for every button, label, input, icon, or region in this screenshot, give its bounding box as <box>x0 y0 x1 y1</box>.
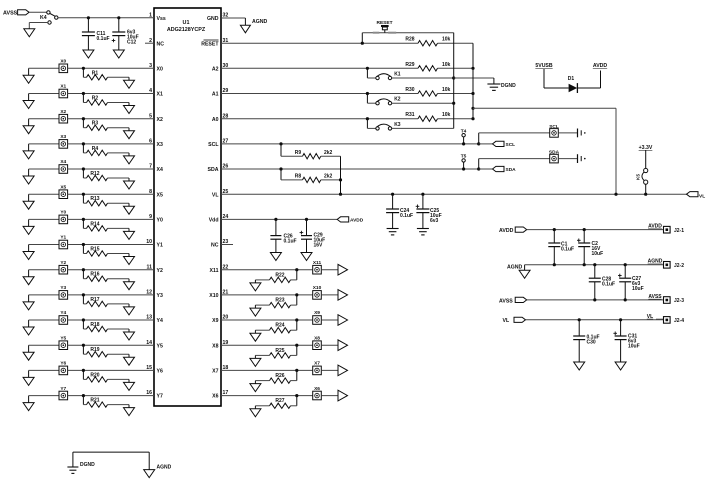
ground at R15 <box>124 257 135 265</box>
svg-text:DGND: DGND <box>501 83 516 89</box>
pushbutton RESET S1 <box>373 20 396 33</box>
svg-text:R27: R27 <box>275 398 284 404</box>
wire X3 to U1 <box>68 143 154 145</box>
ground at R18 <box>124 332 135 340</box>
svg-text:10uF: 10uF <box>628 344 640 350</box>
svg-text:10k: 10k <box>442 37 451 43</box>
connector SDA (SMB) <box>549 150 560 163</box>
svg-text:+3.3V: +3.3V <box>639 145 653 151</box>
wire Y7 to U1 <box>68 395 154 397</box>
svg-text:X11: X11 <box>210 268 219 274</box>
svg-text:R22: R22 <box>275 272 284 278</box>
junction A2 <box>366 67 369 70</box>
svg-text:AGND: AGND <box>157 465 172 471</box>
junction X5/R13 <box>82 193 85 196</box>
junction X9/R24 <box>295 318 298 321</box>
ground at X5 input <box>23 194 34 209</box>
svg-text:Y5: Y5 <box>157 343 163 349</box>
capacitor C25 10uF 6v3 (polarized) <box>416 194 442 228</box>
ground at X1 input <box>23 94 34 109</box>
wire Y0 to U1 <box>68 218 154 220</box>
resistor R30 10k <box>405 87 450 96</box>
svg-text:R25: R25 <box>275 348 284 354</box>
ground AGND at pin32 <box>240 19 267 33</box>
svg-text:5VUSB: 5VUSB <box>535 63 553 69</box>
wire Y2 to U1 <box>68 269 154 271</box>
resistor R13 <box>83 194 129 206</box>
wire pull-ups to VL row <box>339 156 342 194</box>
ground at X0 input <box>23 68 34 83</box>
wire VL row (supply block) <box>526 319 665 321</box>
net label +3.3V <box>639 145 653 151</box>
wire Y6 to U1 <box>68 369 154 371</box>
junction AVDD/C2 <box>583 228 586 231</box>
svg-text:SDA: SDA <box>208 167 219 173</box>
svg-text:R24: R24 <box>275 323 284 329</box>
wire R29 to pull-up rail <box>438 67 475 70</box>
wire Y1 to U1 <box>68 244 154 246</box>
junction X3/R4 <box>82 142 85 145</box>
svg-text:K1: K1 <box>394 71 401 77</box>
wire U1 to connector X6 <box>221 395 312 397</box>
wire Y4 to U1 <box>68 319 154 321</box>
svg-text:J2-4: J2-4 <box>674 318 684 324</box>
ground at Y1 input <box>23 245 34 260</box>
wire X4 to U1 <box>68 168 154 170</box>
svg-text:R31: R31 <box>405 112 414 118</box>
junction X6/R27 <box>295 394 298 397</box>
connector X4 (SMB) <box>59 159 68 173</box>
svg-text:Y7: Y7 <box>157 394 163 400</box>
wire R31 to pull-up rail <box>438 117 475 120</box>
svg-text:AVDD: AVDD <box>593 63 608 69</box>
jumper K1 <box>367 68 400 79</box>
ground (bar) at C25 <box>417 229 429 235</box>
wire U1 to connector X7 <box>221 369 312 371</box>
connector Y2 (SMB) <box>59 260 68 274</box>
junction AVSS/C27 <box>624 298 627 301</box>
wire up to pushbutton row <box>362 33 453 44</box>
junction Y3/R17 <box>82 293 85 296</box>
connector X5 (SMB) <box>59 184 68 198</box>
svg-text:Y1: Y1 <box>157 243 163 249</box>
svg-text:Vdd: Vdd <box>209 218 219 224</box>
capacitor C1 0.1uF <box>548 230 574 265</box>
wire VSS net: K4 common to U1 pin1 <box>58 17 154 19</box>
connector Y4 (SMB) <box>59 310 68 324</box>
connector Y1 (SMB) <box>59 235 68 249</box>
wire SDA net from U1 pin26 <box>221 168 479 170</box>
net label AVDD at J2-1 <box>648 224 662 230</box>
net flag AVSS (supply block) <box>499 297 527 304</box>
ground at R1 <box>124 80 135 88</box>
resistor R4 <box>83 144 129 156</box>
wire U1 to connector X10 <box>221 294 312 296</box>
junction X10/R23 <box>295 293 298 296</box>
connector X8 (SMB) <box>313 335 322 349</box>
junction X4/R12 <box>82 167 85 170</box>
terminal J2-2 <box>664 262 685 269</box>
connector X0 (SMB) <box>59 59 68 73</box>
wire VL net from U1 pin25 to VL flag <box>221 193 687 195</box>
connector X10 (SMB) <box>313 285 322 299</box>
jumper K3 <box>367 119 400 130</box>
ground at X4 input <box>23 169 34 184</box>
wire A2 net from U1 <box>221 67 418 69</box>
ground at Y2 input <box>23 270 34 285</box>
net flag AVDD (supply block) <box>499 227 527 234</box>
connector SCL (SMB) <box>549 124 559 137</box>
ground at Y0 input <box>23 219 34 234</box>
ground (AGND triangle) at K4 <box>24 29 35 37</box>
junction VL/pull-up rail <box>614 193 617 196</box>
wire X0 to U1 <box>68 67 154 69</box>
svg-text:AVDD: AVDD <box>350 218 364 224</box>
svg-text:0.1uF: 0.1uF <box>561 247 574 253</box>
svg-text:R2: R2 <box>92 96 99 102</box>
wire ground to connector Y7 <box>29 395 59 397</box>
ground AGND (triangle, bottom) <box>144 465 172 478</box>
wire SCL net from U1 pin27 <box>221 143 479 145</box>
svg-text:R29: R29 <box>405 62 414 68</box>
wire ground to connector X4 <box>29 168 59 170</box>
jumper K5 <box>636 151 648 195</box>
ground at Y3 input <box>23 295 34 310</box>
svg-text:R21: R21 <box>90 398 99 404</box>
svg-text:J2-2: J2-2 <box>674 263 684 269</box>
svg-text:K2: K2 <box>394 97 401 103</box>
vertical pull-up rail to VL <box>472 43 474 119</box>
net label AVSS (input flag) <box>3 10 29 17</box>
svg-text:R15: R15 <box>90 247 99 253</box>
wire RESET net from U1 pin31 <box>221 42 418 44</box>
svg-text:RESET: RESET <box>377 20 393 26</box>
connector X1 (SMB) <box>59 84 68 98</box>
net flag VL (right) <box>687 192 706 200</box>
open arrow at X6 <box>321 390 347 401</box>
svg-text:X8: X8 <box>212 343 218 349</box>
svg-text:AVDD: AVDD <box>499 228 514 234</box>
connector Y0 (SMB) <box>59 210 68 224</box>
ground at C31 <box>615 362 626 370</box>
svg-text:VL: VL <box>647 314 653 320</box>
resistor R26 <box>255 370 296 383</box>
connector X7 (SMB) <box>313 361 322 375</box>
pin 2 NC stub wire <box>145 42 154 44</box>
capacitor C11 0.1uF <box>82 18 110 50</box>
wire 5VUSB to D1 <box>544 69 569 88</box>
junction X8/R25 <box>295 344 298 347</box>
junction VL/C31 <box>619 318 622 321</box>
net label AVDD (top) <box>593 63 608 69</box>
connector X11 (SMB) <box>313 260 322 274</box>
resistor R1 <box>83 68 129 80</box>
wire ground to connector X1 <box>29 93 59 95</box>
junction AGND/C28 <box>593 263 596 266</box>
svg-text:X2: X2 <box>157 117 163 123</box>
ground at R4 <box>124 156 135 164</box>
wire AVDD row <box>527 229 664 231</box>
wire ground to connector Y6 <box>29 369 59 371</box>
svg-text:AGND: AGND <box>252 19 268 25</box>
diode D1 <box>568 76 578 93</box>
svg-text:X9: X9 <box>212 318 218 324</box>
capacitor C29 10uF 16V (polarized) <box>300 219 326 252</box>
wire ground to connector Y5 <box>29 344 59 346</box>
svg-text:X10: X10 <box>209 293 218 299</box>
connector X3 (SMB) <box>59 134 68 148</box>
resistor R15 <box>83 245 129 257</box>
ground DGND (bar, bottom) <box>67 462 95 473</box>
ground at C30 <box>574 362 585 370</box>
wire A1 net from U1 <box>221 93 418 95</box>
junction Y6/R20 <box>82 369 85 372</box>
svg-text:Y2: Y2 <box>157 268 163 274</box>
capacitor C28 0.1uF <box>589 265 615 300</box>
jumper K2 <box>367 94 400 105</box>
svg-text:ADG2128YCPZ: ADG2128YCPZ <box>167 27 206 33</box>
junction X7/R26 <box>295 369 298 372</box>
capacitor C12 10uF 6v3 (polarized) <box>112 18 139 50</box>
junction VDD/C26 <box>274 218 277 221</box>
wire jumper K1 row to DGND symbol <box>454 78 494 84</box>
svg-text:AVSS: AVSS <box>648 294 662 300</box>
open arrow at X8 <box>321 340 347 351</box>
resistor R22 <box>255 270 296 283</box>
svg-text:0.1uF: 0.1uF <box>602 282 615 288</box>
svg-text:X3: X3 <box>157 142 163 148</box>
ground at R2 <box>124 106 135 114</box>
resistor R25 <box>255 345 296 358</box>
svg-text:10k: 10k <box>442 62 451 68</box>
junction AVSS/C28 <box>593 298 596 301</box>
svg-text:10k: 10k <box>442 112 451 118</box>
svg-text:0.1uF: 0.1uF <box>284 239 297 245</box>
capacitor C24 0.1uF <box>386 194 413 228</box>
svg-text:AVSS: AVSS <box>499 298 513 304</box>
switch K4 <box>40 11 58 24</box>
svg-text:R8: R8 <box>295 174 302 180</box>
ground at X2 input <box>23 119 34 134</box>
net label 5VUSB <box>535 63 553 69</box>
svg-text:J2-3: J2-3 <box>674 298 684 304</box>
svg-text:R13: R13 <box>90 196 99 202</box>
connector Y7 (SMB) <box>59 386 68 400</box>
svg-text:Y0: Y0 <box>157 218 163 224</box>
wire K4 lower throw to ground <box>29 23 48 29</box>
open arrow at X9 <box>321 315 347 326</box>
wire AVSS to K4 <box>29 11 47 13</box>
svg-text:SDA: SDA <box>506 167 517 173</box>
ground at C29 <box>301 253 312 261</box>
ground at Y6 input <box>23 370 34 385</box>
resistor R24 <box>255 320 296 333</box>
svg-text:GND: GND <box>207 16 219 22</box>
junction VL/K5 <box>644 193 647 196</box>
junction A0 <box>366 117 369 120</box>
svg-text:X5: X5 <box>157 192 163 198</box>
svg-text:R14: R14 <box>90 221 99 227</box>
capacitor C31 6v3 10uF (polarized) <box>613 320 639 362</box>
junction VL/C25 <box>421 193 424 196</box>
wire D1 to AVDD <box>577 71 600 89</box>
wire U1 to connector X11 <box>221 269 312 271</box>
svg-text:Y6: Y6 <box>157 369 163 375</box>
svg-text:6v3: 6v3 <box>430 218 439 224</box>
resistor R27 <box>255 396 296 409</box>
svg-text:A1: A1 <box>212 92 219 98</box>
junction AGND/C27 <box>624 263 627 266</box>
connector X6 (SMB) <box>313 386 322 400</box>
svg-text:2k2: 2k2 <box>324 174 333 180</box>
wire ground to connector X2 <box>29 118 59 120</box>
ground at C11 <box>83 50 94 58</box>
ground at Y5 input <box>23 345 34 360</box>
svg-text:R1: R1 <box>92 70 99 76</box>
svg-text:J2-1: J2-1 <box>674 228 684 234</box>
ground at X3 input <box>23 144 34 159</box>
connector Y3 (SMB) <box>59 285 68 299</box>
svg-text:2k2: 2k2 <box>324 150 333 156</box>
net label AVSS at J2-3 <box>648 294 662 300</box>
net flag AVDD at VDD pin <box>337 217 364 224</box>
ground at R24 <box>250 333 261 341</box>
junction A1 <box>366 92 369 95</box>
ground at R16 <box>124 282 135 290</box>
ground at C26 <box>270 253 281 261</box>
svg-text:R30: R30 <box>405 87 414 93</box>
capacitor C27 6v3 10uF (polarized) <box>618 265 644 300</box>
ground AGND (supply block) <box>507 265 530 279</box>
svg-text:AVDD: AVDD <box>648 224 662 230</box>
svg-text:10k: 10k <box>442 87 451 93</box>
net flag VL (supply block) <box>503 317 526 324</box>
U1 left pin names and numbers 1-16 <box>146 13 166 400</box>
svg-text:K3: K3 <box>394 122 401 128</box>
junction X1/R2 <box>82 92 85 95</box>
vertical DGND rail (pushbutton + jumpers) <box>453 33 455 129</box>
junction RESET/pushbutton <box>361 42 364 45</box>
svg-text:K5: K5 <box>636 174 642 180</box>
svg-text:RESET: RESET <box>201 41 219 47</box>
resistor R14 <box>83 219 129 231</box>
wire X1 to U1 <box>68 93 154 95</box>
junction VL/pull-ups <box>339 193 342 196</box>
svg-text:Vss: Vss <box>157 16 166 22</box>
svg-text:R18: R18 <box>90 322 99 328</box>
svg-text:NC: NC <box>211 243 219 249</box>
junction X11/R22 <box>295 268 298 271</box>
svg-text:K4: K4 <box>40 15 47 21</box>
svg-text:SCL: SCL <box>208 142 219 148</box>
resistor R28 10k <box>405 37 450 46</box>
ground at R20 <box>124 382 135 390</box>
svg-text:R28: R28 <box>405 37 414 43</box>
junction SCL branch <box>477 142 480 145</box>
svg-text:AGND: AGND <box>648 259 663 265</box>
net flag SCL <box>479 141 515 148</box>
junction AGND/C1 <box>553 263 556 266</box>
ground at R13 <box>124 206 135 214</box>
svg-text:AGND: AGND <box>507 265 523 271</box>
ground at R27 <box>250 409 261 417</box>
svg-text:X6: X6 <box>212 394 218 400</box>
resistor R23 <box>255 295 296 308</box>
junction VL/C30 <box>578 318 581 321</box>
resistor R16 <box>83 270 129 282</box>
wire R30 to pull-up rail <box>438 92 475 95</box>
svg-text:Y3: Y3 <box>157 293 163 299</box>
svg-text:A0: A0 <box>212 117 219 123</box>
test point T4 <box>461 128 467 145</box>
U1 right pin names and numbers 32-17 <box>201 13 228 400</box>
ground at R17 <box>124 307 135 315</box>
svg-text:10uF: 10uF <box>632 286 644 292</box>
junction VDD/C29 <box>305 218 308 221</box>
connector Y5 (SMB) <box>59 335 68 349</box>
net flag SDA <box>479 166 516 173</box>
svg-text:AVSS: AVSS <box>3 11 18 17</box>
wire R28 to pull-up rail <box>438 42 474 44</box>
open arrow at X10 <box>321 290 347 301</box>
wire VDD net from U1 pin24 <box>221 218 337 220</box>
ground at R19 <box>124 357 135 365</box>
resistor R19 <box>83 345 129 357</box>
wire U1 to connector X9 <box>221 319 312 321</box>
wire K1 to DGND rail <box>392 76 456 79</box>
wire DGND to AGND link <box>73 452 149 470</box>
wire ground to connector Y0 <box>29 218 59 220</box>
svg-text:R3: R3 <box>92 121 99 127</box>
svg-text:Y4: Y4 <box>157 318 163 324</box>
junction AVDD/C1 <box>553 228 556 231</box>
junction Y5/R19 <box>82 344 85 347</box>
svg-text:R16: R16 <box>90 272 99 278</box>
wire Y3 to U1 <box>68 294 154 296</box>
wire X5 to U1 <box>68 193 154 195</box>
junction VL/C24 <box>391 193 394 196</box>
ground at R21 <box>124 408 135 416</box>
wire pull-up rail to VL row <box>473 108 616 194</box>
connector Y6 (SMB) <box>59 361 68 375</box>
wire ground to connector X3 <box>29 143 59 145</box>
svg-text:R4: R4 <box>92 146 99 152</box>
svg-text:R20: R20 <box>90 372 99 378</box>
resistor R3 <box>83 119 129 131</box>
connector X2 (SMB) <box>59 109 68 123</box>
junction at C12 <box>117 16 120 19</box>
ground at R23 <box>250 308 261 316</box>
svg-text:0.1uF: 0.1uF <box>400 213 413 219</box>
capacitor C2 16V 10uF (polarized) <box>577 230 603 265</box>
junction X0/R1 <box>82 67 85 70</box>
wire K2 to DGND rail <box>392 102 456 105</box>
wire SCL to SMB connector <box>479 133 550 144</box>
svg-text:R17: R17 <box>90 297 99 303</box>
wire SDA to SMB connector <box>479 159 550 169</box>
wire ground to connector Y4 <box>29 319 59 321</box>
wire ground to connector X5 <box>29 193 59 195</box>
resistor R21 <box>83 396 129 408</box>
terminal J2-1 <box>664 226 685 233</box>
resistor R2 <box>83 94 129 106</box>
junction Y4/R18 <box>82 318 85 321</box>
wire ground to connector Y1 <box>29 244 59 246</box>
resistor R17 <box>83 295 129 307</box>
wire U1 pin32 GND <box>221 18 245 25</box>
resistor R12 <box>83 169 129 181</box>
wire Y5 to U1 <box>68 344 154 346</box>
